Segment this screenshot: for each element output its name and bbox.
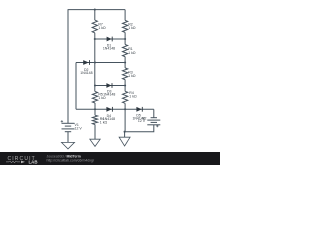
junction node C right: [124, 84, 126, 86]
svg-text:1 kΩ: 1 kΩ: [98, 26, 106, 30]
resistor R1: [123, 45, 128, 57]
wire top horizontal: [68, 9, 126, 11]
junction node C left: [94, 84, 96, 86]
battery V1 plates: [62, 123, 75, 131]
diode D5: [136, 107, 142, 112]
resistor R3: [123, 68, 128, 80]
junction node B left: [94, 61, 96, 63]
svg-text:1 kΩ: 1 kΩ: [128, 74, 136, 78]
svg-text:LAB: LAB: [29, 160, 38, 165]
junction node D right: [124, 108, 126, 110]
svg-text:12 V: 12 V: [75, 127, 83, 131]
junction node D left: [94, 108, 96, 110]
CircuitLab logo text: [8, 156, 38, 165]
svg-text:1 kΩ: 1 kΩ: [98, 96, 106, 100]
wire right rail R1 to R3: [124, 57, 126, 68]
wire mid rail R5 to R6: [94, 103, 96, 115]
wire right rail R4 to bottom node: [124, 103, 126, 131]
svg-text:1 kΩ: 1 kΩ: [128, 51, 136, 55]
svg-text:Jousea93d / MidTerm: Jousea93d / MidTerm: [47, 154, 81, 158]
wire mid rail R6 to ground: [94, 125, 96, 140]
battery V1 plus sign: [61, 120, 63, 122]
svg-text:1 kΩ: 1 kΩ: [128, 26, 136, 30]
junction bottom node: [124, 131, 126, 133]
battery V2 plates: [147, 118, 160, 125]
diode D4: [106, 107, 112, 112]
resistor R5: [92, 92, 97, 104]
wire mid rail upper: [94, 10, 96, 21]
watermark banner: [0, 152, 220, 165]
wire V1 bottom stem: [67, 132, 69, 143]
svg-text:1N4148: 1N4148: [103, 117, 115, 121]
diode D2: [83, 60, 89, 65]
wire V2 bottom stem: [125, 125, 154, 132]
ground mid rail: [90, 139, 100, 146]
svg-text:1N4148: 1N4148: [80, 71, 92, 75]
svg-text:1N4148: 1N4148: [103, 46, 115, 50]
wire V2 top stem: [153, 109, 155, 117]
ground right rail: [119, 137, 130, 146]
wire mid rail R7 to node3: [94, 33, 96, 92]
svg-text:1 kΩ: 1 kΩ: [129, 95, 137, 99]
wire node D diode D4 D5 row: [76, 108, 154, 110]
wire right rail R2 to R1: [124, 32, 126, 44]
junction top rail mid: [94, 9, 96, 11]
svg-text:12 V: 12 V: [138, 119, 146, 123]
resistor R7: [92, 20, 97, 33]
ground for V1: [62, 142, 75, 149]
CircuitLab logo arrow: [21, 161, 25, 164]
wire node B diode D2 row: [76, 62, 125, 64]
wire node C diode D3 row: [95, 85, 125, 87]
labels: [75, 22, 147, 130]
resistor R2: [123, 20, 128, 32]
svg-text:1 kΩ: 1 kΩ: [100, 121, 108, 125]
svg-text:http://circuitlab.com/c6rm4dxg: http://circuitlab.com/c6rm4dxgr: [47, 159, 95, 163]
wire D2 branch vertical: [75, 63, 77, 110]
wire right rail top: [124, 10, 126, 21]
junction node A right: [124, 38, 126, 40]
wire node A diode D1 row: [95, 38, 125, 40]
resistor R4: [123, 91, 128, 103]
junction node A left: [94, 38, 96, 40]
diode D3: [106, 83, 112, 88]
wire left rail V1: [67, 10, 69, 124]
CircuitLab logo zigzag wire: [6, 161, 20, 163]
junction node B right: [124, 61, 126, 63]
battery V2 plus sign: [156, 125, 158, 127]
svg-text:1N4148: 1N4148: [103, 92, 115, 96]
diode D1: [107, 37, 113, 42]
wire right rail R3 to R4: [124, 80, 126, 92]
resistor R6: [92, 115, 97, 124]
wire right ground stem: [124, 132, 126, 138]
